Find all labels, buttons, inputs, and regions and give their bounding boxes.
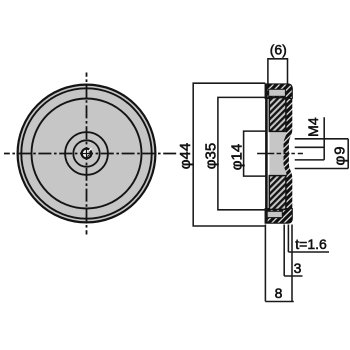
svg-text:φ35: φ35	[203, 143, 220, 169]
svg-text:t=1.6: t=1.6	[295, 236, 327, 252]
svg-text:φ14: φ14	[229, 144, 246, 170]
svg-text:8: 8	[275, 285, 283, 301]
svg-text:M4: M4	[305, 117, 321, 137]
svg-text:φ9: φ9	[332, 145, 349, 165]
svg-text:φ44: φ44	[177, 143, 194, 169]
svg-text:(6): (6)	[270, 42, 287, 58]
svg-text:3: 3	[294, 260, 302, 276]
